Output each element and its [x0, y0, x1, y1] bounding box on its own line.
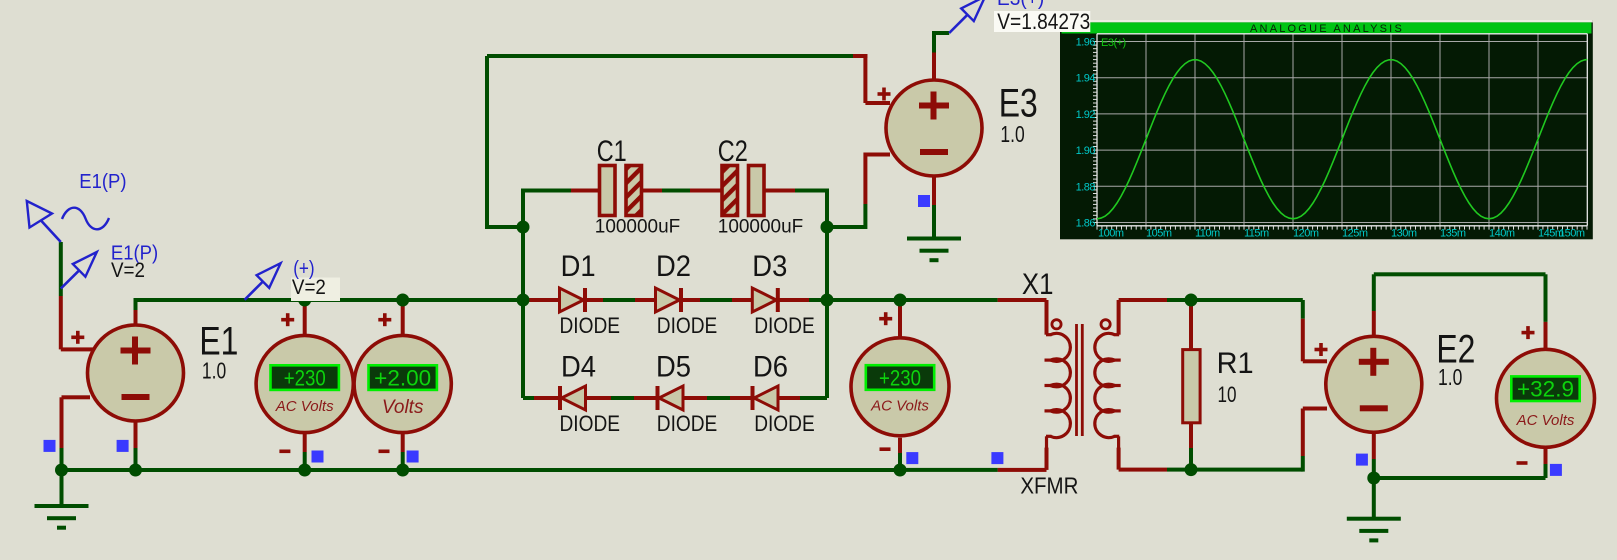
svg-text:E3(+): E3(+) — [1101, 37, 1126, 49]
svg-text:X1: X1 — [1022, 268, 1054, 301]
svg-text:1.86: 1.86 — [1076, 218, 1096, 230]
svg-text:Volts: Volts — [382, 397, 424, 418]
svg-text:XFMR: XFMR — [1020, 473, 1078, 499]
svg-text:1.92: 1.92 — [1076, 109, 1096, 121]
svg-text:D3: D3 — [752, 250, 787, 283]
svg-text:1.0: 1.0 — [1438, 364, 1462, 390]
svg-text:140m: 140m — [1489, 228, 1515, 240]
svg-text:V=2: V=2 — [292, 276, 326, 299]
svg-text:1.0: 1.0 — [202, 358, 226, 384]
svg-text:135m: 135m — [1440, 228, 1466, 240]
svg-text:110m: 110m — [1195, 228, 1220, 240]
svg-text:1.96: 1.96 — [1076, 37, 1096, 49]
svg-text:DIODE: DIODE — [560, 313, 621, 338]
svg-text:D4: D4 — [561, 351, 596, 384]
svg-text:D2: D2 — [656, 250, 691, 283]
svg-text:+230: +230 — [879, 366, 921, 391]
svg-text:115m: 115m — [1244, 228, 1269, 240]
svg-text:150m: 150m — [1559, 228, 1585, 240]
svg-text:1.88: 1.88 — [1076, 181, 1096, 193]
svg-text:D6: D6 — [753, 351, 788, 384]
svg-text:E1(P): E1(P) — [79, 171, 126, 193]
svg-text:AC Volts: AC Volts — [275, 398, 334, 415]
svg-text:+230: +230 — [284, 366, 326, 391]
svg-text:E3: E3 — [999, 81, 1038, 125]
svg-text:DIODE: DIODE — [657, 411, 718, 436]
svg-text:V=1.84273: V=1.84273 — [997, 9, 1090, 34]
svg-text:1.90: 1.90 — [1076, 145, 1096, 157]
svg-text:125m: 125m — [1342, 228, 1368, 240]
svg-text:100000uF: 100000uF — [595, 216, 680, 237]
svg-text:D1: D1 — [561, 250, 596, 283]
svg-text:D5: D5 — [656, 351, 691, 384]
svg-text:100000uF: 100000uF — [718, 216, 803, 237]
svg-text:ANALOGUE ANALYSIS: ANALOGUE ANALYSIS — [1250, 23, 1404, 35]
svg-text:R1: R1 — [1217, 347, 1254, 380]
svg-text:1.0: 1.0 — [1000, 121, 1024, 147]
svg-text:DIODE: DIODE — [560, 411, 621, 436]
svg-text:130m: 130m — [1391, 228, 1417, 240]
svg-text:120m: 120m — [1293, 228, 1319, 240]
svg-text:C2: C2 — [718, 135, 748, 168]
svg-text:DIODE: DIODE — [754, 313, 815, 338]
svg-text:10: 10 — [1218, 382, 1237, 407]
svg-text:C1: C1 — [597, 135, 627, 168]
svg-text:AC Volts: AC Volts — [1516, 412, 1575, 429]
svg-text:V=2: V=2 — [111, 259, 145, 282]
svg-text:+32.9: +32.9 — [1517, 377, 1574, 402]
svg-text:DIODE: DIODE — [754, 411, 815, 436]
svg-text:+2.00: +2.00 — [374, 366, 431, 391]
svg-text:AC Volts: AC Volts — [870, 398, 929, 415]
svg-text:100m: 100m — [1098, 228, 1124, 240]
svg-text:105m: 105m — [1146, 228, 1172, 240]
svg-text:DIODE: DIODE — [657, 313, 718, 338]
svg-text:1.94: 1.94 — [1076, 73, 1096, 85]
